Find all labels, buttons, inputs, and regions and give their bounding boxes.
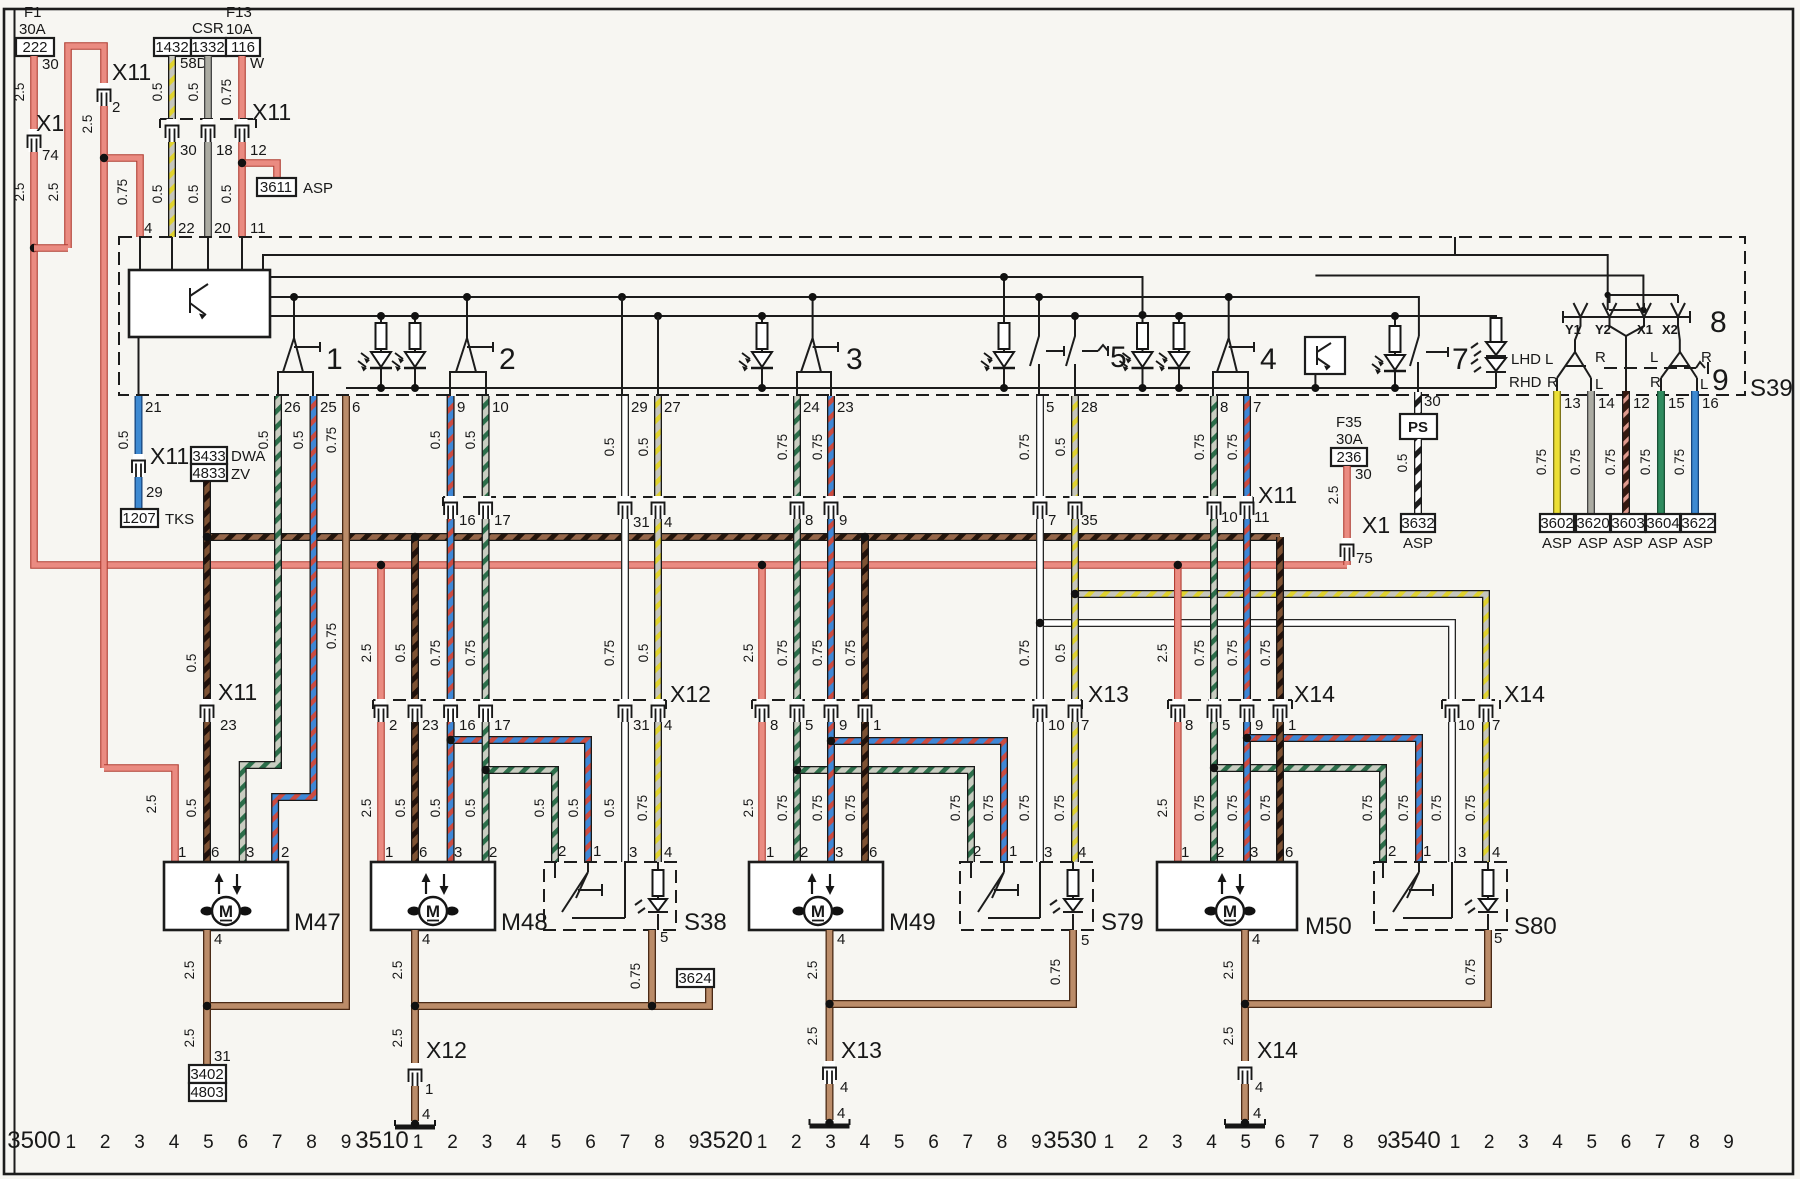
svg-text:L: L [1650,349,1658,366]
svg-text:3: 3 [246,844,254,861]
svg-text:0.75: 0.75 [1534,449,1549,475]
fuse F1 box 222 [16,38,54,56]
svg-text:23: 23 [220,717,237,734]
svg-text:2.5: 2.5 [741,799,756,818]
motor box M50 [1157,862,1297,930]
svg-text:0.75: 0.75 [1463,795,1478,821]
svg-text:10: 10 [1048,717,1065,734]
svg-text:0.75: 0.75 [810,434,825,460]
svg-text:3620: 3620 [1576,515,1609,532]
svg-text:Y1: Y1 [1565,322,1581,337]
wire 29 drop line inside S39 [621,297,623,396]
svg-text:2: 2 [973,843,981,860]
wire red bus to M50 pin 1 [1174,565,1182,862]
svg-text:5: 5 [805,717,813,734]
svg-text:236: 236 [1336,449,1361,466]
wire green-white 10/17 S39 to M48 pin 2 with branch to S38 pin 2 [482,396,490,862]
wire green-white 26 from switch 1 to M47 pin 3 [243,396,278,862]
wire clear to S80 pin 3 below X14 [1448,700,1456,862]
row B connectors group 3 [791,496,804,519]
svg-text:0.75: 0.75 [843,640,858,666]
svg-text:7: 7 [1253,399,1261,416]
svg-text:0.75: 0.75 [1360,795,1375,821]
wire grey-yellow to S80 pin 4 below X14 [1482,700,1490,862]
dots on bottom rail [377,384,385,392]
svg-text:3: 3 [1458,844,1466,861]
svg-text:S39: S39 [1750,375,1793,402]
svg-text:1: 1 [178,844,186,861]
svg-text:9: 9 [689,1132,700,1153]
svg-text:16: 16 [459,717,476,734]
connector X11 pin 29 inline [132,454,145,477]
svg-text:5: 5 [1587,1132,1598,1153]
svg-text:LHD: LHD [1511,351,1541,368]
svg-text:TKS: TKS [165,511,194,528]
svg-text:0.75: 0.75 [324,623,339,649]
box 3624 [677,969,714,987]
svg-text:11: 11 [1254,509,1270,526]
svg-text:CSR: CSR [192,20,224,37]
svg-text:7: 7 [1452,343,1469,376]
svg-text:24: 24 [803,399,820,416]
svg-text:2.5: 2.5 [144,795,159,814]
wire blue-red 7/11/9 S39 to M50 pin 3 with branch to S80 pin 1 [1243,396,1251,862]
svg-text:31: 31 [633,514,650,531]
svg-text:0.5: 0.5 [186,83,201,102]
row B connectors group 2 [444,496,457,519]
svg-text:3: 3 [1044,844,1052,861]
box PS [1400,414,1437,439]
svg-text:0.75: 0.75 [1048,959,1063,985]
svg-text:9: 9 [839,512,847,529]
control unit pin stubs to S39 border [139,237,243,396]
connector X11 pin 23 [201,699,214,722]
transistor Y2 [1603,295,1627,336]
svg-text:0.75: 0.75 [775,434,790,460]
svg-text:12: 12 [250,142,267,159]
svg-text:S79: S79 [1101,909,1144,936]
wire blue-red 25 from switch 1 to M47 pin 2 [275,396,313,862]
svg-text:15: 15 [1668,395,1685,412]
svg-text:3622: 3622 [1681,515,1714,532]
svg-text:0.5: 0.5 [393,799,408,818]
ground bus brown-black 31 [207,533,1280,541]
svg-text:10: 10 [1221,509,1238,526]
svg-text:0.75: 0.75 [1603,449,1618,475]
svg-text:20: 20 [214,220,231,237]
svg-text:0.5: 0.5 [184,654,199,673]
svg-text:0.75: 0.75 [948,795,963,821]
svg-text:4: 4 [664,717,672,734]
svg-text:0.5: 0.5 [428,431,443,450]
S38 internal switch symbol [555,862,625,918]
svg-text:4: 4 [516,1132,527,1153]
svg-text:2.5: 2.5 [1221,1027,1236,1046]
dashed link rail 9 with spring [1604,367,1696,369]
svg-text:0.75: 0.75 [428,640,443,666]
jumper grey-yellow to X14 pin 7 [1075,594,1486,700]
connector row X11 main [443,496,1253,498]
svg-text:8: 8 [1710,306,1727,339]
svg-text:22: 22 [178,220,195,237]
svg-text:3602: 3602 [1540,515,1573,532]
svg-text:1: 1 [66,1132,77,1153]
svg-text:9: 9 [1377,1132,1388,1153]
svg-text:0.75: 0.75 [602,640,617,666]
svg-text:18: 18 [216,142,233,159]
svg-text:6: 6 [1275,1132,1286,1153]
wire red W from box 116 to control unit pin 11 [238,56,246,237]
box 4833 ZV [191,464,227,481]
junction node on X11-2 red wire [100,154,108,162]
svg-text:0.5: 0.5 [566,799,581,818]
svg-text:3632: 3632 [1401,515,1434,532]
svg-text:23: 23 [422,717,439,734]
svg-text:0.5: 0.5 [428,799,443,818]
row C connector X13 [752,699,1082,701]
svg-text:2.5: 2.5 [182,1029,197,1048]
row C connector X14 right [1442,699,1500,701]
svg-text:0.75: 0.75 [1429,795,1444,821]
wire red from box 236 down to X1 and main feed bus [1343,466,1351,565]
svg-text:6: 6 [211,844,219,861]
svg-text:2.5: 2.5 [805,1027,820,1046]
svg-text:1207: 1207 [122,510,155,527]
svg-text:0.75: 0.75 [1192,640,1207,666]
svg-text:6: 6 [419,844,427,861]
S80 internal switch symbol [1383,862,1452,918]
svg-text:10: 10 [1458,717,1475,734]
LHD RHD double diode chain [1495,340,1497,388]
switch unit S80 dashed box [1374,862,1507,930]
svg-text:0.5: 0.5 [532,799,547,818]
svg-text:6: 6 [928,1132,939,1153]
svg-text:L: L [1545,351,1553,368]
svg-text:ASP: ASP [1578,535,1608,552]
svg-text:1: 1 [326,343,343,376]
svg-text:4: 4 [1206,1132,1217,1153]
svg-text:0.75: 0.75 [1052,795,1067,821]
transistor group gate bar rail 8 [1563,311,1690,323]
svg-text:0.5: 0.5 [602,438,617,457]
svg-text:23: 23 [837,399,854,416]
svg-text:3510: 3510 [355,1127,408,1154]
resistor and LED column 2 [414,316,416,388]
wire red branch to box 3611 ASP [242,163,277,178]
svg-text:6: 6 [869,844,877,861]
svg-text:7: 7 [272,1132,283,1153]
wire grey from box 1332 to control unit pin 20 [204,56,212,237]
svg-text:Y2: Y2 [1595,322,1611,337]
box 3620 [1576,514,1610,532]
svg-text:3: 3 [454,844,462,861]
svg-text:8: 8 [1689,1132,1700,1153]
box 3632 ASP [1401,514,1435,532]
svg-text:1: 1 [873,717,881,734]
wire brown-black 23 bus to M48 pin 6 [411,537,419,862]
svg-text:7: 7 [1492,717,1500,734]
svg-text:7: 7 [963,1132,974,1153]
svg-text:16: 16 [1702,395,1719,412]
svg-text:2.5: 2.5 [741,644,756,663]
svg-text:0.75: 0.75 [775,640,790,666]
svg-text:0.5: 0.5 [463,431,478,450]
wire blue-red 23/9 S39 to M49 pin 3 with branch to S79 pin 1 [827,396,835,862]
svg-text:17: 17 [494,717,511,734]
svg-text:8: 8 [997,1132,1008,1153]
wire black-white from PS to box 3632 [1414,439,1422,514]
switch 5 contact b [1066,316,1108,396]
box 1207 TKS [121,509,158,527]
motor box M48 [371,862,495,930]
svg-text:3500: 3500 [7,1127,60,1154]
connector row X11 for CSR wires [160,118,256,120]
wire red loop from node at left up over to connector X11 pin 2 [68,46,104,768]
resistor and LED column 1 [380,316,382,388]
svg-text:1332: 1332 [191,39,224,56]
svg-text:R: R [1701,349,1712,366]
svg-text:2: 2 [791,1132,802,1153]
rail 5 bottom collector line [346,387,1496,389]
svg-text:0.5: 0.5 [184,799,199,818]
svg-text:1: 1 [1181,844,1189,861]
lower transistor left [1557,352,1591,391]
svg-text:30: 30 [180,142,197,159]
svg-text:1: 1 [593,843,601,860]
svg-text:7: 7 [620,1132,631,1153]
switch 5 contact a [1030,297,1064,396]
svg-text:4: 4 [664,844,672,861]
svg-text:0.5: 0.5 [150,185,165,204]
svg-text:3611: 3611 [260,179,292,196]
motor box M49 [749,862,883,930]
svg-text:0.75: 0.75 [843,795,858,821]
svg-text:2.5: 2.5 [805,961,820,980]
svg-text:4: 4 [1252,931,1260,948]
svg-text:5: 5 [1046,399,1054,416]
svg-text:0.75: 0.75 [635,795,650,821]
svg-text:X1: X1 [36,110,64,136]
svg-text:4833: 4833 [192,465,225,482]
wire red 2 bus to M48 pin 1 [377,565,385,862]
wire green-white 24/8/5 S39 to M49 pin 2 with branch to S79 pin 2 [793,396,801,862]
svg-text:5: 5 [1081,932,1089,949]
svg-text:222: 222 [22,39,47,56]
box 1432 [154,38,191,56]
switch 7 contact [1410,336,1448,396]
svg-text:31: 31 [633,717,650,734]
svg-text:0.5: 0.5 [219,185,234,204]
svg-text:0.5: 0.5 [1395,454,1410,473]
control unit box [129,270,270,337]
svg-text:4: 4 [1253,1105,1261,1122]
svg-text:30A: 30A [1336,431,1363,448]
svg-text:S38: S38 [684,909,727,936]
svg-text:3: 3 [1518,1132,1529,1153]
svg-text:X11: X11 [112,59,151,85]
vertical tie at 1455 to dashed border [1454,237,1456,255]
svg-text:10: 10 [492,399,509,416]
svg-text:0.5: 0.5 [116,431,131,450]
svg-text:X11: X11 [252,99,291,125]
svg-text:2: 2 [389,717,397,734]
svg-text:2: 2 [112,99,120,116]
S80 internal resistor and LED [1487,862,1489,930]
svg-text:2: 2 [1138,1132,1149,1153]
electronics box with transistor [1305,337,1345,374]
switch unit S79 dashed box [960,862,1093,930]
svg-text:9: 9 [341,1132,352,1153]
svg-text:X1: X1 [1637,322,1653,337]
junction node on left red wire [30,244,38,252]
svg-text:4: 4 [860,1132,871,1153]
svg-text:1432: 1432 [155,39,188,56]
svg-text:2.5: 2.5 [359,644,374,663]
svg-text:X1: X1 [1362,512,1390,538]
svg-text:0.5: 0.5 [1053,438,1068,457]
resistor and LED column 7 [1394,316,1396,388]
svg-text:0.75: 0.75 [1258,640,1273,666]
wire green pin 15 to box 3604 [1657,391,1665,514]
svg-text:X14: X14 [1504,681,1545,707]
svg-text:0.75: 0.75 [1017,795,1032,821]
svg-text:2: 2 [489,844,497,861]
box 3611 [257,178,296,196]
transistor symbol inside control unit [190,284,208,315]
svg-text:X2: X2 [1662,322,1678,337]
wire grey pin 14 to box 3620 [1587,391,1595,514]
wire brown-black from box 4833 down through X11 pin 23 to M47 pin 6 [203,481,211,862]
wire red branch to control unit pin 4 [104,158,140,237]
box 1332 [191,38,226,56]
svg-text:8: 8 [805,512,813,529]
svg-text:5: 5 [660,929,668,946]
svg-text:28: 28 [1081,399,1098,416]
wire brown M47 pin 4 ground lead [203,930,211,1065]
svg-text:3540: 3540 [1387,1127,1440,1154]
svg-text:2: 2 [1484,1132,1495,1153]
svg-text:3: 3 [1250,844,1258,861]
svg-text:6: 6 [585,1132,596,1153]
svg-text:5: 5 [894,1132,905,1153]
svg-text:16: 16 [459,512,476,529]
S79 internal switch symbol [971,862,1040,918]
svg-text:0.5: 0.5 [393,644,408,663]
wire grey-yellow 28/35/7 S39 to S79 pin 4 [1071,396,1079,862]
svg-text:ZV: ZV [231,466,250,483]
svg-text:M49: M49 [889,909,936,936]
svg-text:X11: X11 [1258,482,1297,508]
svg-text:6: 6 [352,399,360,416]
rail 3 from control unit to switch 7 [270,297,1419,336]
svg-text:X14: X14 [1257,1037,1298,1063]
connector X1 pin 74 inline symbol [28,129,41,152]
resistor and LED column 5 [1142,349,1144,388]
svg-text:0.75: 0.75 [1258,795,1273,821]
svg-text:0.75: 0.75 [775,795,790,821]
svg-text:4: 4 [664,514,672,531]
wire red bus to M49 pin 1 [758,565,766,862]
svg-text:7: 7 [1655,1132,1666,1153]
svg-text:2.5: 2.5 [1326,486,1341,505]
svg-text:0.5: 0.5 [186,185,201,204]
wire black-white 30 from S39 to PS [1414,392,1422,414]
rail 4 from control unit to LHD/RHD diode chain [270,316,1496,318]
svg-text:0.5: 0.5 [291,431,306,450]
svg-text:2.5: 2.5 [80,115,95,134]
wire red from fuse 222 terminal 30 down left side [34,56,1347,565]
svg-text:3530: 3530 [1043,1127,1096,1154]
svg-text:PS: PS [1408,419,1428,436]
svg-text:2.5: 2.5 [390,961,405,980]
svg-text:6: 6 [1285,844,1293,861]
ground symbol X12 [395,1120,435,1127]
svg-text:0.75: 0.75 [810,795,825,821]
S79 internal resistor and LED [1072,862,1074,930]
svg-text:F35: F35 [1336,414,1362,431]
svg-text:0.75: 0.75 [115,179,130,205]
svg-text:3: 3 [629,844,637,861]
svg-text:2: 2 [558,843,566,860]
svg-text:L: L [1595,376,1603,393]
switch unit S38 dashed box [544,862,676,930]
svg-text:6: 6 [1621,1132,1632,1153]
svg-text:F13: F13 [226,4,252,21]
svg-text:4: 4 [1255,1079,1263,1096]
svg-text:0.5: 0.5 [1053,644,1068,663]
svg-text:0.5: 0.5 [636,644,651,663]
rail 1 from control unit top to transistor group [263,255,1608,310]
svg-text:0.5: 0.5 [602,799,617,818]
svg-text:29: 29 [631,399,648,416]
svg-text:5: 5 [551,1132,562,1153]
svg-text:0.75: 0.75 [324,427,339,453]
svg-text:30: 30 [42,56,59,73]
svg-text:3: 3 [846,343,863,376]
svg-text:3: 3 [1172,1132,1183,1153]
svg-text:0.75: 0.75 [219,79,234,105]
svg-text:2: 2 [281,844,289,861]
svg-text:ASP: ASP [1542,535,1572,552]
svg-text:75: 75 [1356,550,1373,567]
resistor and LED column 4 [1003,277,1005,388]
centre line to pin 12 [1625,336,1627,391]
wire blue pin 16 to box 3622 [1691,391,1699,514]
wire brown 6 from S39 down to M47 ground run [207,396,346,1006]
wire brown M49 pin 4 ground lead [826,930,834,1120]
transistor group interconnects [1608,295,1678,310]
svg-text:4: 4 [169,1132,180,1153]
svg-text:0.75: 0.75 [1017,434,1032,460]
svg-text:0.75: 0.75 [981,795,996,821]
svg-text:ASP: ASP [303,180,333,197]
svg-text:F1: F1 [24,4,42,21]
svg-text:8: 8 [1185,717,1193,734]
svg-text:17: 17 [494,512,511,529]
svg-text:4: 4 [422,931,430,948]
svg-text:0.75: 0.75 [628,963,643,989]
svg-text:2.5: 2.5 [182,961,197,980]
row C connector X14 left [1168,699,1292,701]
svg-text:M47: M47 [294,909,341,936]
svg-text:5: 5 [1494,930,1502,947]
svg-text:1: 1 [1288,717,1296,734]
svg-text:9: 9 [1031,1132,1042,1153]
svg-text:4: 4 [1492,844,1500,861]
svg-text:2: 2 [499,343,516,376]
svg-text:29: 29 [146,484,163,501]
svg-text:DWA: DWA [231,448,265,465]
